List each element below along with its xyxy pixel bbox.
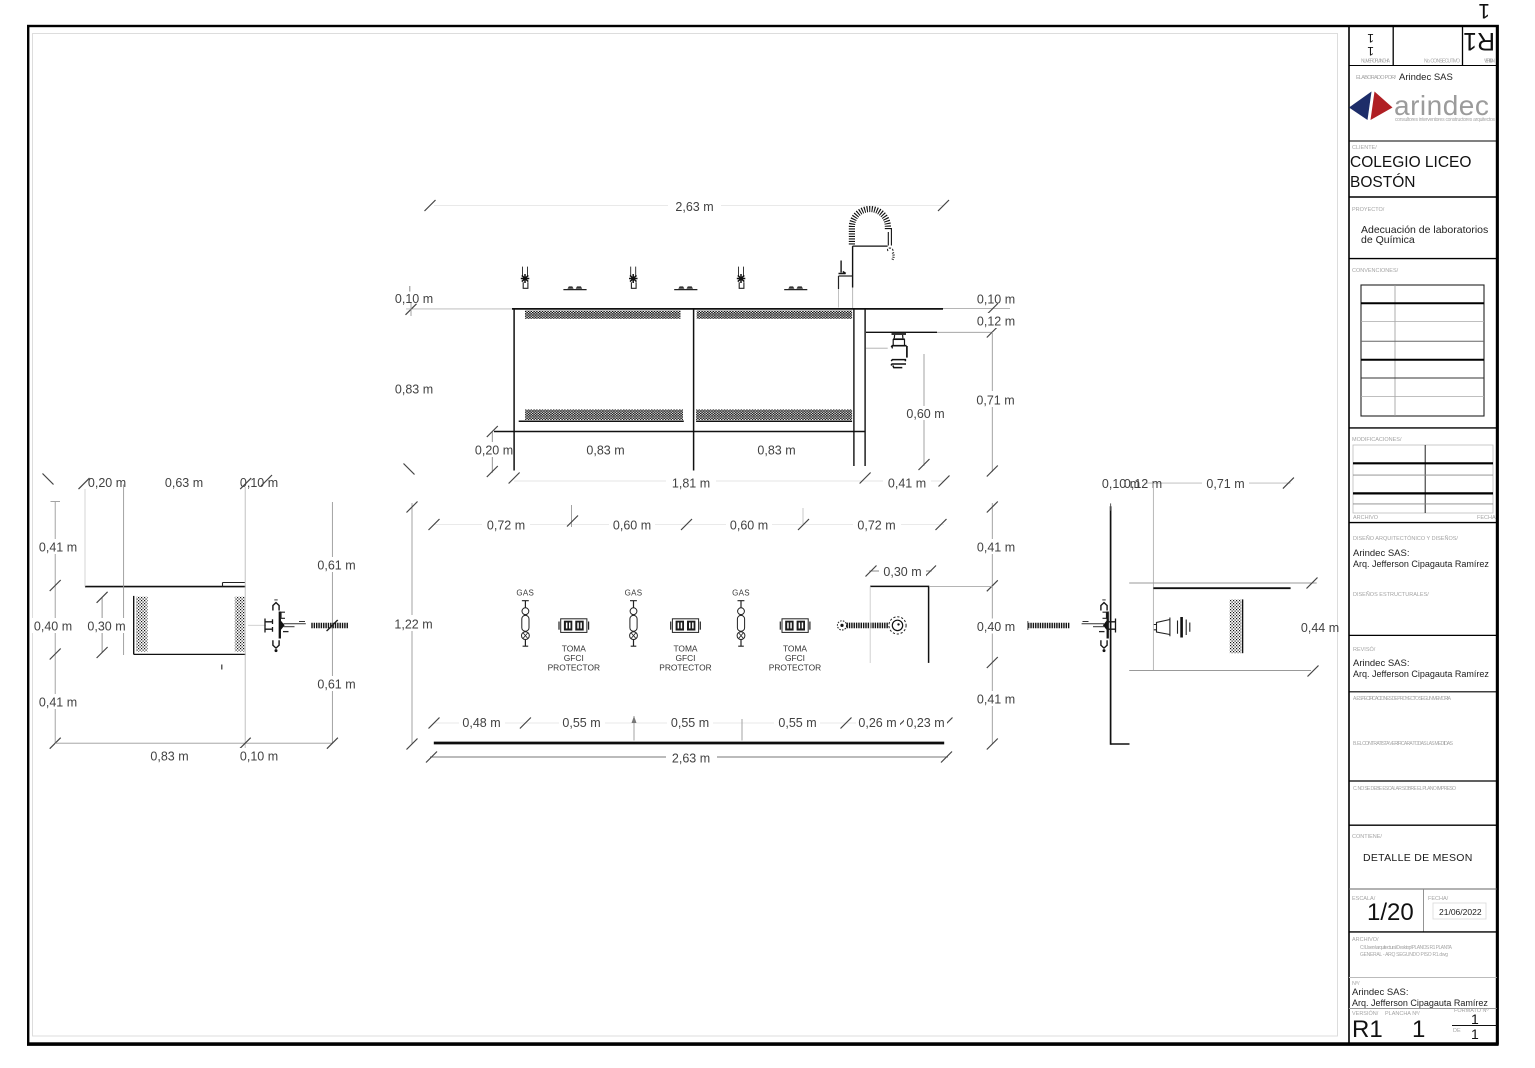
side L dim 0.30 top tick [97, 592, 108, 603]
plan top dim extension b [802, 508, 804, 524]
svg-text:Arindec SAS:: Arindec SAS: [1353, 548, 1410, 559]
plan top dim tick 1 [429, 519, 440, 530]
dim 2.63 top right tick [938, 200, 949, 211]
beaker 1b [576, 286, 583, 288]
side R upper gray line [1129, 582, 1317, 584]
dim 0.41 right label top [972, 539, 1020, 554]
sink drain trap [891, 334, 907, 368]
side L backsplash notch vertical [222, 583, 224, 587]
side L top dim tick b [240, 478, 251, 489]
side L dim 0.61 mid tick [327, 620, 338, 631]
gas valve plan 2 [630, 601, 638, 647]
side R faucet pipe bottom [1093, 626, 1104, 628]
svg-text:0,10 m: 0,10 m [240, 476, 278, 490]
svg-text:GFCI: GFCI [785, 653, 805, 663]
svg-text:PROTECTOR: PROTECTOR [548, 663, 600, 673]
side L dim 0.61 bottom label [313, 676, 360, 691]
svg-text:2,63 m: 2,63 m [675, 200, 713, 214]
plan bottom tick 2 [520, 718, 531, 729]
beaker set 3 baseline [784, 289, 807, 291]
plan front edge thick line [434, 742, 944, 745]
plan top dim tick 5 [936, 519, 947, 530]
svg-text:C. NO SE DEBE ESCALAR SOBRE EL: C. NO SE DEBE ESCALAR SOBRE EL PLANO IMP… [1353, 786, 1456, 792]
modificaciones divider [1349, 427, 1497, 429]
side L dim 0.61 line [331, 502, 333, 743]
svg-text:ARCHIVO/: ARCHIVO/ [1352, 937, 1379, 943]
outlet symbol 2 [671, 619, 701, 633]
side L dim 0.30 line [101, 597, 103, 652]
side R faucet pipe top [1082, 623, 1104, 625]
side L bottom dim line [55, 742, 332, 744]
svg-text:1: 1 [1471, 1011, 1479, 1027]
countertop hatch band right segment [697, 311, 852, 319]
faucet riser pipe faint lower [852, 288, 854, 309]
side L faucet pipe bottom [284, 626, 295, 628]
svg-text:0,20 m: 0,20 m [475, 443, 513, 457]
gas tap 3 stem left [738, 267, 740, 276]
svg-text:0,55 m: 0,55 m [671, 716, 709, 730]
countertop surface line [512, 308, 943, 310]
plan right dim bottom tick [987, 739, 998, 750]
plan bottom tick 5 [942, 718, 953, 729]
side L faucet bottom wing [273, 640, 279, 648]
gas tap 2 stem right [635, 267, 637, 276]
svg-text:DISEÑOS ESTRUCTURALES/: DISEÑOS ESTRUCTURALES/ [1353, 591, 1429, 598]
side R dim 0.71 label [1202, 476, 1249, 491]
svg-text:0,41 m: 0,41 m [39, 540, 77, 554]
svg-text:de Química: de Química [1361, 234, 1415, 246]
faucet lever stem [840, 261, 842, 273]
side R drain bars [1178, 620, 1190, 636]
plan left dim top tick [407, 502, 418, 513]
faucet spout bar [853, 245, 888, 247]
dim 0.30 label [879, 564, 926, 579]
TITLE BLOCK [1349, 26, 1497, 1044]
svg-text:0,30 m: 0,30 m [883, 565, 921, 579]
side L dim 0.10 bottom label [236, 748, 282, 763]
side L bottom tick right [327, 738, 338, 749]
dim 0.60 label 2 [726, 517, 772, 532]
dim 0.60 label [904, 406, 947, 421]
gooseneck faucet hose hatching [852, 209, 888, 244]
ELEVATION VIEW [395, 197, 1020, 490]
svg-text:0,60 m: 0,60 m [906, 407, 944, 421]
gas tap 1 stem left [522, 267, 524, 276]
faucet riser pipe [852, 246, 854, 287]
side L faucet lower dash [283, 631, 289, 633]
dim 0.41 label [883, 474, 931, 490]
side L cabinet left edge [133, 596, 135, 655]
dim 0.10 left line [406, 308, 512, 310]
diseno section divider [1349, 522, 1497, 524]
svg-text:REVISÓ/: REVISÓ/ [1353, 646, 1376, 653]
modificaciones column divider [1424, 445, 1426, 513]
modificaciones row thin 2 [1353, 503, 1493, 505]
stray backslash mark [404, 464, 415, 475]
svg-text:R1: R1 [1463, 27, 1495, 55]
gas tap 3 stem right [743, 267, 745, 276]
side L faucet wedge [281, 620, 285, 630]
svg-text:0,10 m: 0,10 m [395, 292, 433, 306]
svg-text:TOMA: TOMA [673, 644, 697, 654]
convenciones row line 6 [1361, 395, 1484, 397]
dim 0.60 bottom tick [919, 459, 930, 470]
modificaciones row thick 2 [1353, 492, 1493, 494]
shelf surface line right [696, 420, 852, 422]
dim 0.10 left top tick [409, 286, 411, 292]
side R extension x1153 [1152, 483, 1154, 670]
gas tap 2 stem left [630, 267, 632, 276]
svg-text:DE: DE [1453, 1028, 1461, 1034]
convenciones row line thick 1 [1361, 302, 1484, 304]
svg-text:2,63 m: 2,63 m [672, 751, 710, 765]
svg-text:No. CONSECUTIVO: No. CONSECUTIVO [1424, 59, 1460, 65]
gas tap 1 handle star [521, 274, 530, 283]
dim 0.83 bottom label 1 [582, 442, 630, 457]
plan faucet outer circle [889, 617, 906, 634]
side L faucet top wing [273, 603, 279, 611]
gas tap 2 handle star [629, 274, 638, 283]
svg-text:0,23 m: 0,23 m [906, 716, 944, 730]
convenciones table column divider [1394, 285, 1396, 416]
svg-text:1: 1 [1367, 31, 1374, 45]
dim 1.81 label [666, 474, 716, 490]
plan bottom tick 4 [896, 718, 907, 729]
side R dim 0.10 label [1100, 476, 1144, 491]
gas tap 3 handle star [737, 274, 746, 283]
svg-text:GENERAL - ARQ SEGUNDO PISO R1.: GENERAL - ARQ SEGUNDO PISO R1.dwg [1360, 952, 1448, 958]
gas tap 2 body [631, 282, 636, 288]
faucet mixer side [838, 276, 840, 289]
svg-text:0,48 m: 0,48 m [462, 716, 500, 730]
svg-text:GAS: GAS [516, 589, 534, 598]
dibujo divider light [1349, 977, 1497, 979]
side L small tick below cabinet [221, 665, 223, 670]
beaker 2a [678, 286, 684, 288]
side R faucet upper bracket [1103, 612, 1107, 618]
side L hatch strip right [235, 597, 246, 652]
plan bottom dim line [434, 722, 944, 724]
svg-text:1,22 m: 1,22 m [394, 617, 432, 631]
svg-text:VERSION: VERSION [1484, 59, 1495, 65]
side L left dim bottom tick [50, 738, 61, 749]
side L dim 0.40 label [30, 618, 76, 633]
svg-text:FECHA/: FECHA/ [1428, 896, 1449, 902]
dim 0.20 top tick [487, 426, 498, 437]
side R wall foot [1111, 743, 1130, 745]
plan top dim tick 3 [681, 519, 692, 530]
svg-text:CLIENTE/: CLIENTE/ [1352, 145, 1377, 151]
fecha value box [1433, 903, 1486, 919]
dim 0.10 right cross tick [987, 304, 998, 315]
svg-text:0,71 m: 0,71 m [1206, 477, 1244, 491]
side L faucet flange [279, 612, 281, 639]
svg-text:0,63 m: 0,63 m [165, 476, 203, 490]
dim 0.72 label 2 [853, 517, 901, 532]
svg-text:1: 1 [1367, 44, 1374, 58]
side L dim 0.61 top label [313, 557, 360, 572]
architect underline [1349, 1008, 1497, 1010]
side L dim 0.41 bottom label [34, 694, 81, 709]
dim 2.63 bottom right tick [941, 752, 952, 763]
dim 0.30 line [869, 570, 931, 572]
side L faucet bottom blob [275, 649, 278, 652]
svg-text:1: 1 [1478, 0, 1490, 22]
dim 0.10 right line [943, 308, 1010, 310]
side R lower gray line tick [1308, 666, 1319, 677]
plan right dim tick at sink [987, 580, 998, 591]
svg-text:MODIFICACIONES/: MODIFICACIONES/ [1352, 437, 1402, 443]
svg-text:Arq. Jefferson Cipagauta Ramír: Arq. Jefferson Cipagauta Ramírez [1353, 559, 1489, 569]
svg-text:FECHA: FECHA [1477, 515, 1496, 521]
side L dim 0.41 top label [34, 539, 81, 554]
beaker 1a [568, 286, 574, 288]
sink rim extension gray [937, 331, 992, 333]
dim 0.55 label 1 [559, 715, 605, 730]
right support post outer [853, 309, 855, 466]
svg-text:TOMA: TOMA [562, 644, 586, 654]
svg-text:Arq. Jefferson Cipagauta Ramír: Arq. Jefferson Cipagauta Ramírez [1353, 669, 1489, 679]
side L top dim tick a [79, 478, 90, 489]
side R top dim right tick [1283, 478, 1294, 489]
side R hatch strip [1230, 599, 1242, 653]
dim 0.30 right tick [925, 566, 936, 577]
svg-text:C:\Users\arquitectura\Desktop\: C:\Users\arquitectura\Desktop\PLANOS R1 … [1360, 945, 1453, 951]
plan bottom extension a [633, 716, 635, 741]
dim 0.40 right label [972, 619, 1020, 634]
side L bottom tick mid [240, 738, 251, 749]
side L faucet small tick [299, 621, 305, 623]
second notes divider [1349, 780, 1497, 782]
faucet nozzle curl [888, 248, 894, 252]
side L hatch strip left [136, 597, 148, 652]
side L countertop line [85, 586, 246, 588]
convenciones row line 2 [1361, 321, 1484, 323]
svg-text:0,55 m: 0,55 m [778, 716, 816, 730]
beaker 3a [788, 286, 794, 288]
top cells divider 1 [1392, 26, 1394, 66]
sink plan left edge gray [869, 586, 871, 663]
plan top dim extension a [571, 505, 573, 527]
svg-text:1: 1 [1412, 1016, 1425, 1043]
dim 0.20 bottom tick [487, 466, 498, 477]
dim 0.12 right label [972, 313, 1020, 328]
outlet symbol 1 [559, 619, 589, 633]
convenciones row line thick 5 [1361, 377, 1484, 379]
svg-text:Nº/: Nº/ [1352, 980, 1360, 987]
dim 1.22 label [391, 615, 436, 631]
side R faucet bottom blob [1103, 649, 1106, 652]
convenciones table frame [1361, 285, 1484, 416]
proyecto row divider [1349, 196, 1497, 198]
svg-text:1,81 m: 1,81 m [672, 476, 710, 490]
side R faucet hose [1028, 623, 1070, 629]
plan faucet center mark [897, 623, 899, 625]
side R faucet flange [1107, 612, 1109, 639]
svg-text:0,10 m: 0,10 m [240, 749, 278, 763]
dim 0.30 left tick [866, 566, 877, 577]
faucet nozzle tip [892, 253, 894, 261]
svg-text:0,72 m: 0,72 m [857, 518, 895, 532]
shelf hatch band left segment [525, 410, 683, 420]
dim 0.23 label [904, 715, 947, 730]
dim 2.63 top line [434, 205, 944, 207]
dim 1.81 left tick [509, 473, 520, 484]
side L backsplash notch top [223, 582, 246, 584]
dim 2.63 bottom label [666, 749, 717, 765]
svg-text:1: 1 [1471, 1026, 1479, 1042]
dim 1.81 right tick [860, 473, 871, 484]
countertop hatch band left segment [525, 311, 681, 319]
svg-text:0,83 m: 0,83 m [150, 749, 188, 763]
svg-text:0,26 m: 0,26 m [858, 716, 896, 730]
svg-text:0,55 m: 0,55 m [562, 716, 600, 730]
formato fraction line [1452, 1025, 1497, 1027]
side L faucet top cap [274, 599, 277, 601]
svg-text:consultores interventores co: consultores interventores constructores … [1395, 117, 1496, 123]
dim 0.71 label [971, 391, 1019, 407]
svg-text:0,40 m: 0,40 m [34, 619, 72, 633]
dim 0.55 label 3 [774, 715, 820, 730]
plan faucet hose [847, 623, 889, 629]
side R faucet bottom wing [1101, 640, 1107, 648]
svg-text:0,61 m: 0,61 m [317, 558, 355, 572]
plan left dim bottom tick [407, 739, 418, 750]
notes divider [1349, 691, 1497, 693]
plan bottom tick 1 [429, 718, 440, 729]
beaker 2b [687, 286, 694, 288]
modificaciones table frame [1353, 445, 1493, 513]
side R faucet wedge [1103, 620, 1107, 630]
side R top dim line [1111, 482, 1291, 484]
svg-text:B. EL CONTRATISTA VERIFICARA T: B. EL CONTRATISTA VERIFICARA TODAS LAS M… [1353, 741, 1454, 747]
sink plan top edge [870, 585, 929, 587]
svg-text:0,20 m: 0,20 m [88, 476, 126, 490]
RIGHT SIDE VIEW [1028, 476, 1339, 745]
svg-text:0,72 m: 0,72 m [487, 518, 525, 532]
svg-text:COLEGIO LICEO: COLEGIO LICEO [1350, 154, 1471, 171]
side L faucet hose [311, 623, 348, 629]
dim 0.20 label [474, 442, 513, 457]
sink plan right edge [928, 586, 930, 663]
svg-text:A. ESPECIFICACIONES DE PROYECT: A. ESPECIFICACIONES DE PROYECTO SEGUN ME… [1353, 696, 1452, 702]
plan top dim tick 4 [798, 519, 809, 530]
svg-text:PROYECTO/: PROYECTO/ [1352, 207, 1385, 213]
drawing area faint inner border [33, 34, 1338, 1037]
svg-text:21/06/2022: 21/06/2022 [1439, 907, 1482, 917]
svg-text:0,41 m: 0,41 m [888, 476, 926, 490]
dim 0.10 left cross tick [406, 304, 417, 315]
svg-text:Arindec SAS:: Arindec SAS: [1353, 658, 1410, 669]
svg-text:NUMERO PLANCHA: NUMERO PLANCHA [1361, 59, 1391, 65]
dim 2.63 top left tick [425, 200, 436, 211]
sink dim connector gray [930, 585, 992, 587]
svg-text:0,83 m: 0,83 m [757, 443, 795, 457]
plan faucet inner circle [892, 620, 902, 630]
side R faucet lower dash [1099, 631, 1105, 633]
faucet mixer side faint lower [838, 289, 840, 308]
dim 0.71 bottom tick [987, 466, 998, 477]
svg-text:0,12 m: 0,12 m [1124, 477, 1162, 491]
beaker set 1 baseline [563, 289, 586, 291]
side L cabinet bottom [134, 653, 246, 655]
dim 2.63 bottom line [430, 756, 948, 758]
dim 0.10 left tick tail [410, 303, 412, 316]
side R upper gray line tick [1307, 578, 1318, 589]
side R faucet hose tip [1027, 621, 1029, 630]
side R faucet small tick [1083, 621, 1089, 623]
svg-text:DISEÑO ARQUITECTÓNICO Y DISEÑO: DISEÑO ARQUITECTÓNICO Y DISEÑOS/ [1353, 535, 1458, 542]
dim 2.63 bottom left tick [426, 752, 437, 763]
side L left dim tick mid2 [50, 649, 61, 660]
svg-text:0,41 m: 0,41 m [977, 692, 1015, 706]
right support post inner [864, 309, 866, 466]
faucet right leg outer [890, 228, 892, 246]
svg-text:Arq. Jefferson Cipagauta Ramír: Arq. Jefferson Cipagauta Ramírez [1352, 998, 1488, 1008]
side L dim 0.83 label [146, 748, 193, 763]
plan faucet supply circle [837, 621, 846, 630]
svg-text:R1: R1 [1352, 1016, 1383, 1043]
sink connector gray line [866, 347, 888, 349]
beaker set 2 baseline [674, 289, 697, 291]
side L left dim tick mid1 [50, 580, 61, 591]
plan right dim tick mid [987, 657, 998, 668]
title block right edge [1496, 26, 1498, 1044]
side L extension line x85 [84, 489, 86, 587]
side R faucet top wing [1101, 603, 1107, 611]
svg-text:PROTECTOR: PROTECTOR [769, 663, 821, 673]
svg-text:Arindec SAS:: Arindec SAS: [1352, 987, 1409, 998]
svg-text:0,44 m: 0,44 m [1301, 621, 1339, 635]
left support post [513, 309, 515, 471]
side L faucet pipe top [284, 623, 306, 625]
plan top dim line [434, 524, 944, 526]
dim row 1.81 line [514, 480, 944, 482]
dim 0.83 bottom label 2 [753, 442, 801, 457]
svg-text:1/20: 1/20 [1367, 899, 1414, 926]
side L left dim line [54, 502, 56, 743]
svg-text:TOMA: TOMA [783, 644, 807, 654]
side L faucet upper bracket [281, 612, 285, 618]
faucet right leg inner [887, 232, 889, 246]
dim 0.12 right cross tick [987, 327, 998, 338]
modificaciones row thick 1 [1353, 462, 1493, 464]
side R countertop line [1153, 587, 1290, 589]
plan bottom extension b [741, 719, 743, 741]
side R lower gray line [1129, 670, 1311, 672]
sink rim line dark [866, 331, 937, 333]
outlet symbol 3 [780, 619, 810, 633]
side L extension line x123 [123, 485, 125, 656]
gas valve plan 1 [522, 601, 530, 647]
svg-text:0,10 m: 0,10 m [977, 293, 1015, 307]
plan top dim tick 2 [567, 516, 578, 527]
svg-text:0,71 m: 0,71 m [976, 393, 1014, 407]
svg-text:ARCHIVO: ARCHIVO [1353, 515, 1379, 521]
plan left dim line 1.22 [411, 503, 413, 744]
side L faucet bracket [265, 619, 273, 633]
modificaciones row thin 1 [1353, 474, 1493, 476]
svg-text:0,61 m: 0,61 m [317, 677, 355, 691]
logo blue triangle [1349, 92, 1372, 121]
side L top dim tick c [261, 475, 272, 486]
dim 0.72 label 1 [482, 517, 530, 532]
side L dim 0.30 bottom tick [97, 647, 108, 658]
beaker 3b [797, 286, 804, 288]
gas tap 3 body [739, 282, 744, 288]
shelf bottom frame line [494, 431, 865, 433]
svg-text:0,41 m: 0,41 m [39, 695, 77, 709]
